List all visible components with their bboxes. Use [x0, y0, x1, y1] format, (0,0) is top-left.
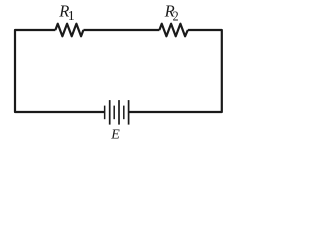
resistor R1: [55, 24, 83, 37]
battery short plate 2: [113, 106, 115, 120]
battery short plate 1: [104, 106, 106, 120]
wire: right vertical branch: [129, 30, 222, 112]
svg-text:2: 2: [173, 10, 179, 25]
battery tall plate 3: [128, 100, 130, 125]
svg-text:E: E: [110, 128, 120, 141]
resistor R2: [159, 24, 187, 37]
svg-text:1: 1: [68, 9, 75, 24]
battery tall plate 2: [118, 100, 120, 125]
wire: top middle segment between R1 and R2: [83, 29, 159, 31]
battery short plate 3: [123, 106, 125, 120]
wire: left vertical branch: [15, 30, 105, 112]
battery E plates: [104, 100, 130, 125]
battery tall plate 1: [109, 100, 111, 125]
